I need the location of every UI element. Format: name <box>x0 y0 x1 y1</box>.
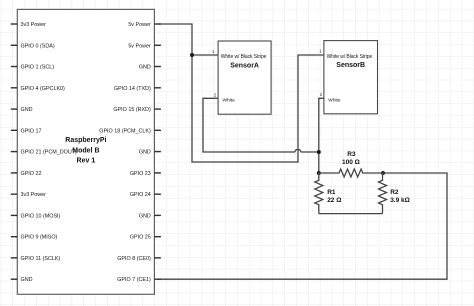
svg-text:GPIO 10 (MOSI): GPIO 10 (MOSI) <box>21 213 61 219</box>
svg-text:GPIO 1 (SCL): GPIO 1 (SCL) <box>21 65 55 71</box>
svg-text:GPIO 22: GPIO 22 <box>21 171 42 177</box>
svg-text:GPIO 25: GPIO 25 <box>130 235 151 241</box>
svg-text:GND: GND <box>139 150 151 156</box>
wire node B to GPIO 7 (CE1): right, down, across bottom <box>158 173 447 279</box>
svg-text:5v Power: 5v Power <box>128 43 151 49</box>
svg-text:R2: R2 <box>390 189 399 196</box>
svg-text:GPIO 24: GPIO 24 <box>130 192 151 198</box>
svg-text:GPIO 23: GPIO 23 <box>130 171 151 177</box>
RaspberryPi Model B Rev 1 (U1) <box>11 9 161 294</box>
svg-text:GPIO 17: GPIO 17 <box>21 128 42 134</box>
svg-text:GPIO 8 (CE0): GPIO 8 (CE0) <box>117 256 151 262</box>
svg-text:White: White <box>223 98 236 104</box>
svg-text:White: White <box>328 97 341 103</box>
junction dot at 5v branch (192,55) <box>190 53 194 57</box>
svg-text:GPIO 18 (PCM_CLK): GPIO 18 (PCM_CLK) <box>99 128 151 134</box>
svg-text:5v Power: 5v Power <box>128 22 151 28</box>
svg-text:GPIO 14 (TXD): GPIO 14 (TXD) <box>114 86 151 92</box>
svg-text:SensorA: SensorA <box>230 62 259 69</box>
svg-text:GPIO 11 (SCLK): GPIO 11 (SCLK) <box>21 256 61 262</box>
wire SensorB pin2 White: left then down to node A <box>319 98 324 173</box>
svg-text:R3: R3 <box>347 151 356 158</box>
svg-text:GPIO 0 (SDA): GPIO 0 (SDA) <box>21 43 55 49</box>
svg-text:GND: GND <box>21 277 33 283</box>
SensorA <box>212 41 271 114</box>
svg-text:GPIO 9 (MISO): GPIO 9 (MISO) <box>21 235 58 241</box>
wire branch to SensorA pin 1 <box>192 54 218 56</box>
svg-text:Model B: Model B <box>72 147 99 154</box>
svg-text:3v3 Power: 3v3 Power <box>21 22 47 28</box>
svg-text:GPIO 7 (CE1): GPIO 7 (CE1) <box>117 277 151 283</box>
svg-text:GPIO 15 (RXD): GPIO 15 (RXD) <box>113 107 151 113</box>
svg-text:2: 2 <box>320 92 323 98</box>
svg-text:1: 1 <box>319 49 322 55</box>
svg-text:RaspberryPi: RaspberryPi <box>65 137 106 144</box>
wire SensorA pin2 White: left, down, across with hop over 5v rail, to node A <box>203 98 319 152</box>
svg-text:GND: GND <box>21 107 33 113</box>
resistor R1 22 ohm (vertical) <box>315 173 342 214</box>
svg-text:Rev 1: Rev 1 <box>77 158 96 165</box>
svg-text:White w/ Black Stripe: White w/ Black Stripe <box>327 54 373 60</box>
svg-text:R1: R1 <box>327 189 336 196</box>
svg-text:GND: GND <box>139 213 151 219</box>
node A junction dot (318.8,173) <box>317 171 321 175</box>
svg-text:White w/ Black Stripe: White w/ Black Stripe <box>221 54 267 60</box>
svg-text:GPIO 21 (PCM_DOUT): GPIO 21 (PCM_DOUT) <box>21 150 78 156</box>
svg-text:1: 1 <box>212 49 215 55</box>
wire 5v Power rail: RPi 5v pin right, down, across, up to SensorB pin1; feeds SensorA pin1 <box>158 24 324 162</box>
svg-text:3.9 kΩ: 3.9 kΩ <box>390 197 410 204</box>
resistor R2 3.9 kohm (vertical) <box>379 173 410 214</box>
svg-text:SensorB: SensorB <box>336 62 365 69</box>
SensorB <box>319 41 377 114</box>
svg-text:2: 2 <box>214 92 217 98</box>
svg-text:GPIO 4 (GPCLK0): GPIO 4 (GPCLK0) <box>21 86 66 92</box>
svg-text:GND: GND <box>139 65 151 71</box>
svg-text:22 Ω: 22 Ω <box>327 197 341 204</box>
svg-text:100 Ω: 100 Ω <box>342 159 360 166</box>
junction dot where SensorA white meets SensorB white (318.8,152) <box>317 150 321 154</box>
resistor R3 100 ohm (horizontal) <box>319 151 383 177</box>
svg-text:3v3 Power: 3v3 Power <box>21 192 47 198</box>
node B junction dot (383,173) <box>381 171 385 175</box>
wire R1 bottom to R2 bottom <box>319 213 383 215</box>
